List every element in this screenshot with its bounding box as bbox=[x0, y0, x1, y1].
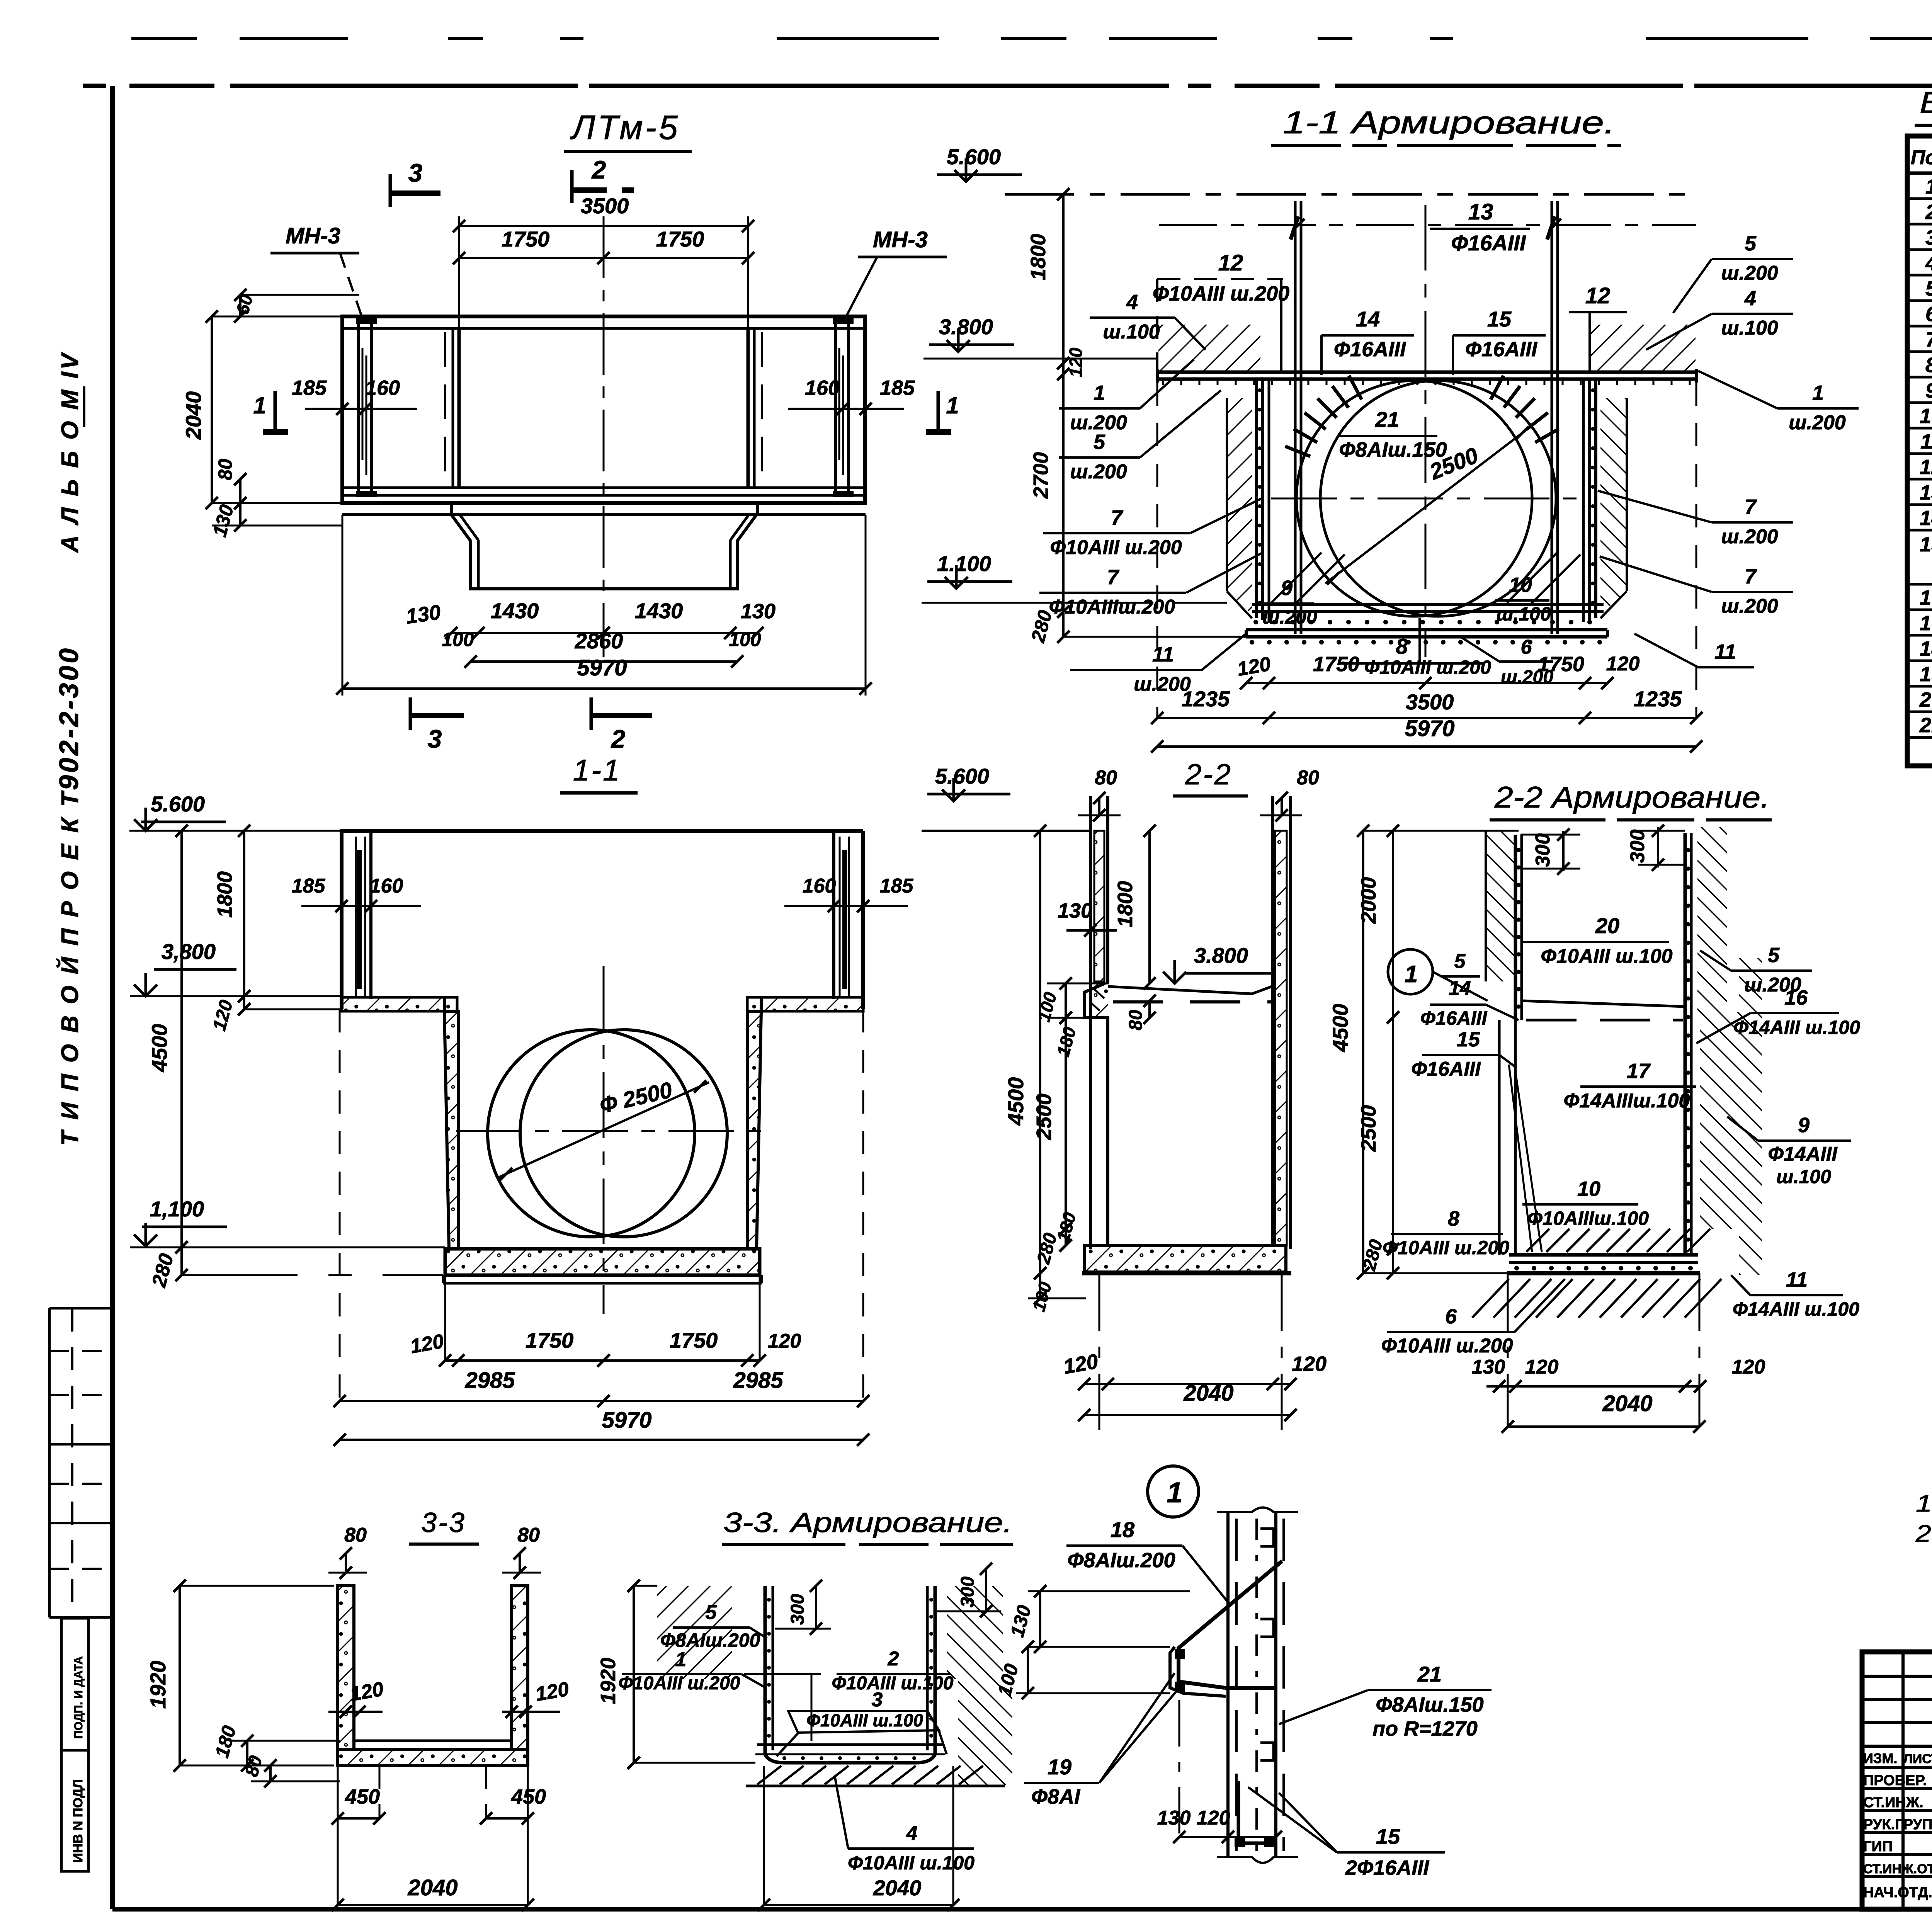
section mark 3 bottom bbox=[409, 697, 412, 730]
svg-text:12: 12 bbox=[1218, 250, 1243, 276]
svg-text:2040: 2040 bbox=[181, 391, 206, 440]
section mark 2 bottom bbox=[590, 697, 593, 730]
centerline vertical (1-1 arm) bbox=[1425, 205, 1427, 657]
svg-text:1.Защитный слой бетона - 20: 1.Защитный слой бетона - 20 мм. bbox=[1916, 1490, 1932, 1517]
svg-text:21: 21 bbox=[1919, 714, 1932, 737]
svg-text:Ф16АIII: Ф16АIII bbox=[1334, 338, 1406, 361]
slab diag hatch right bbox=[1507, 553, 1557, 603]
svg-text:160: 160 bbox=[805, 376, 840, 400]
svg-text:1.100: 1.100 bbox=[937, 551, 991, 576]
svg-text:Ф10АIII ш.100: Ф10АIII ш.100 bbox=[848, 1852, 975, 1874]
plan bottom trapezoid (base formwork) bbox=[450, 503, 453, 515]
svg-text:4500: 4500 bbox=[147, 1024, 172, 1073]
svg-text:СТ.ИНЖ.ОТД: СТ.ИНЖ.ОТД bbox=[1863, 1862, 1932, 1876]
svg-text:7: 7 bbox=[1107, 566, 1120, 589]
2-2 left wall formwork lines bbox=[1089, 796, 1092, 1249]
svg-text:3.800: 3.800 bbox=[939, 315, 993, 339]
svg-text:1: 1 bbox=[253, 393, 266, 418]
2-2 right wall hatched core bbox=[1275, 831, 1287, 1245]
svg-text:Ф10АIII ш.200: Ф10АIII ш.200 bbox=[1383, 1237, 1509, 1259]
svg-text:80: 80 bbox=[214, 459, 236, 480]
svg-text:1-1 Армирование.: 1-1 Армирование. bbox=[1283, 105, 1615, 140]
svg-text:МН-3: МН-3 bbox=[873, 227, 928, 252]
svg-text:Ф10АIII ш.200: Ф10АIII ш.200 bbox=[1153, 282, 1289, 305]
svg-text:21: 21 bbox=[1417, 1662, 1442, 1686]
soil hatch outside left wall bbox=[1227, 398, 1252, 614]
svg-text:6: 6 bbox=[1925, 303, 1932, 326]
dimension 3500 (plan top) bbox=[458, 216, 460, 328]
svg-text:3: 3 bbox=[1925, 226, 1932, 249]
svg-text:18: 18 bbox=[1920, 637, 1932, 660]
bottom slab mesh (1-1 arm) bbox=[1252, 603, 1604, 606]
svg-text:80: 80 bbox=[517, 1524, 540, 1546]
svg-text:20: 20 bbox=[1919, 688, 1932, 711]
detail 1 circle mark bbox=[1148, 1466, 1199, 1517]
3-3 arm balloon for 3 bbox=[788, 1711, 939, 1733]
svg-text:2000: 2000 bbox=[1357, 877, 1380, 924]
svg-text:5: 5 bbox=[1745, 232, 1757, 255]
svg-text:300: 300 bbox=[1532, 833, 1554, 867]
svg-text:ш.200: ш.200 bbox=[1721, 262, 1778, 284]
svg-text:2Ф16АIII: 2Ф16АIII bbox=[1345, 1856, 1429, 1879]
embedded plate MH-3 right bbox=[835, 321, 849, 496]
svg-text:5: 5 bbox=[1925, 277, 1932, 300]
circle centerline horizontal bbox=[1271, 498, 1580, 500]
svg-text:11: 11 bbox=[1786, 1268, 1808, 1291]
svg-text:5.600: 5.600 bbox=[151, 792, 205, 816]
frame bottom line bbox=[112, 1907, 1932, 1912]
1-1 right channel wall (hatched) bbox=[747, 1011, 761, 1249]
svg-text:10: 10 bbox=[1920, 405, 1932, 428]
svg-text:15: 15 bbox=[1920, 533, 1932, 556]
svg-text:1430: 1430 bbox=[491, 599, 539, 623]
svg-text:Ф8АIш.200: Ф8АIш.200 bbox=[1067, 1549, 1175, 1572]
3-3 left wall bbox=[338, 1586, 354, 1749]
svg-text:17: 17 bbox=[1920, 612, 1932, 635]
plan left dim chain 2040/60/80/130 bbox=[212, 316, 342, 318]
top mesh line (ledge + slab top bars) bbox=[1157, 371, 1696, 374]
plan right hidden line dashed bbox=[761, 332, 763, 485]
3-3 arm callout 1-2 connecting line bbox=[744, 1673, 925, 1675]
svg-text:9: 9 bbox=[1798, 1114, 1810, 1137]
svg-text:1800: 1800 bbox=[213, 871, 236, 918]
svg-text:3500: 3500 bbox=[581, 194, 629, 218]
frame top line bbox=[83, 84, 1932, 88]
svg-text:5: 5 bbox=[1454, 950, 1466, 973]
svg-text:1920: 1920 bbox=[597, 1658, 620, 1704]
svg-text:12: 12 bbox=[1920, 456, 1932, 479]
svg-text:ш.200: ш.200 bbox=[1262, 606, 1317, 628]
1-1 diameter dimension line bbox=[498, 1082, 709, 1178]
svg-text:9: 9 bbox=[1925, 379, 1932, 402]
svg-text:160: 160 bbox=[370, 875, 403, 897]
svg-text:5: 5 bbox=[1768, 944, 1780, 967]
embedded plate MH-3 left bbox=[359, 321, 372, 496]
svg-text:2-2 Армирование.: 2-2 Армирование. bbox=[1494, 780, 1770, 814]
svg-text:2: 2 bbox=[611, 724, 626, 753]
svg-text:2040: 2040 bbox=[407, 1875, 457, 1900]
svg-text:2: 2 bbox=[591, 155, 606, 184]
detail bottom break squiggle bbox=[1217, 1857, 1298, 1863]
detail bottom rebar hooks 15 bbox=[1238, 1781, 1275, 1843]
svg-text:Ф16АIII: Ф16АIII bbox=[1420, 1007, 1488, 1029]
1-1 bottom slab (hatched) bbox=[445, 1249, 760, 1275]
svg-text:А Л Ь Б О М IV: А Л Ь Б О М IV bbox=[57, 351, 83, 553]
svg-text:902-2-300: 902-2-300 bbox=[54, 646, 84, 790]
3-3 arm U rebar bbox=[764, 1586, 767, 1754]
bottom slab mesh (2-2 arm) bbox=[1509, 1253, 1698, 1257]
svg-text:1: 1 bbox=[1167, 1476, 1182, 1509]
slab diag hatch left bbox=[1271, 553, 1321, 603]
1-1 top line bbox=[340, 829, 863, 833]
3-3 arm left hatch bbox=[657, 1586, 732, 1679]
svg-text:1920: 1920 bbox=[146, 1661, 170, 1709]
svg-text:по R=1270: по R=1270 bbox=[1372, 1717, 1478, 1740]
svg-text:1800: 1800 bbox=[1027, 234, 1050, 280]
left margin stamp table bbox=[48, 1308, 51, 1617]
detail vertical bars bbox=[1226, 1512, 1230, 1856]
2-2 left wall hatched core bbox=[1094, 831, 1104, 981]
1-1 left upper wall bbox=[340, 831, 344, 1009]
svg-text:1750: 1750 bbox=[526, 1328, 574, 1352]
pipe circles (1-1 arm) bbox=[1296, 381, 1532, 616]
left hatch band (2-2 arm) bbox=[1486, 831, 1515, 981]
svg-text:ПРОВЕР.: ПРОВЕР. bbox=[1863, 1772, 1927, 1789]
svg-text:5970: 5970 bbox=[602, 1408, 651, 1433]
svg-text:13: 13 bbox=[1920, 481, 1932, 504]
svg-text:Ф14АIII: Ф14АIII bbox=[1768, 1143, 1838, 1165]
svg-text:120: 120 bbox=[768, 1330, 801, 1352]
bar 13 dimension line (dash-dot) bbox=[1159, 224, 1696, 226]
detail circle 1 (2-2 arm) bbox=[1388, 949, 1433, 994]
svg-text:РУК.ГРУП: РУК.ГРУП bbox=[1863, 1816, 1932, 1833]
svg-text:160: 160 bbox=[803, 875, 836, 897]
svg-text:ш.200: ш.200 bbox=[1721, 526, 1778, 548]
svg-text:2860: 2860 bbox=[575, 629, 623, 653]
title block left table rows bbox=[1862, 1675, 1932, 1678]
svg-text:Ф10АIII ш.200: Ф10АIII ш.200 bbox=[619, 1673, 740, 1694]
svg-text:10: 10 bbox=[1509, 573, 1532, 597]
2-2 bottom slab bbox=[1084, 1245, 1286, 1272]
svg-text:Т И П О В О Й П Р О Е К Т: Т И П О В О Й П Р О Е К Т bbox=[56, 790, 83, 1146]
svg-text:9: 9 bbox=[1281, 577, 1293, 600]
svg-text:Ф10АIIIш.100: Ф10АIIIш.100 bbox=[1527, 1207, 1649, 1229]
svg-text:185: 185 bbox=[880, 875, 914, 897]
svg-text:17: 17 bbox=[1627, 1060, 1651, 1083]
svg-text:14: 14 bbox=[1920, 507, 1932, 530]
svg-text:Ф10АIII ш.100: Ф10АIII ш.100 bbox=[832, 1673, 954, 1694]
svg-text:3,800: 3,800 bbox=[162, 939, 216, 964]
svg-text:2040: 2040 bbox=[1602, 1391, 1652, 1416]
2-2 right wall formwork lines bbox=[1289, 796, 1292, 1249]
2-2 floor slope lines bbox=[1108, 986, 1252, 994]
soil hatch left above ledge bbox=[1158, 325, 1260, 372]
1-1 right ledge (hatched slab) bbox=[747, 997, 863, 1011]
svg-text:1235: 1235 bbox=[1634, 687, 1682, 711]
svg-text:300: 300 bbox=[1626, 830, 1649, 863]
svg-text:120: 120 bbox=[1066, 347, 1086, 377]
plan left end wall partition bbox=[452, 328, 454, 488]
svg-text:Ф14АIIIш.100: Ф14АIIIш.100 bbox=[1564, 1090, 1690, 1112]
svg-text:2500: 2500 bbox=[1032, 1094, 1056, 1140]
svg-text:5: 5 bbox=[706, 1601, 717, 1624]
svg-text:2040: 2040 bbox=[1183, 1381, 1233, 1406]
1-1 centerlines bbox=[603, 966, 605, 1314]
svg-text:4: 4 bbox=[1744, 287, 1756, 310]
5.600 dash-dot level line bbox=[1005, 193, 1698, 196]
3-3 arm right hatch bbox=[947, 1586, 1003, 1679]
svg-text:2040: 2040 bbox=[873, 1876, 922, 1900]
vertical rebar 13 right bbox=[1551, 201, 1553, 634]
3-3 right wall bbox=[512, 1586, 528, 1749]
svg-text:Ф16АIII: Ф16АIII bbox=[1411, 1058, 1481, 1080]
detail bent bar 18 bbox=[1179, 1561, 1282, 1688]
soil hatch under slab (2-2 arm) bbox=[1472, 1279, 1509, 1318]
svg-text:185: 185 bbox=[880, 376, 915, 400]
plan top inner line bbox=[344, 327, 863, 330]
svg-text:130: 130 bbox=[741, 600, 776, 623]
svg-text:160: 160 bbox=[365, 376, 400, 400]
slab rebar dots bbox=[1253, 620, 1258, 624]
svg-text:Ф8АIш.150: Ф8АIш.150 bbox=[1376, 1693, 1483, 1716]
detail horizontal bar to wall bbox=[1225, 1686, 1275, 1690]
diameter 2500 note bbox=[1325, 427, 1530, 583]
svg-text:Ф10АIII ш.200: Ф10АIII ш.200 bbox=[1050, 536, 1182, 559]
svg-text:5.600: 5.600 bbox=[947, 145, 1001, 169]
svg-text:1: 1 bbox=[1812, 381, 1824, 405]
svg-text:1750: 1750 bbox=[1538, 653, 1584, 676]
svg-text:120: 120 bbox=[1292, 1352, 1327, 1376]
detail hooked bars 21 in wall bbox=[1260, 1529, 1274, 1546]
svg-text:ГИП: ГИП bbox=[1863, 1838, 1893, 1855]
1-1 left ledge (hatched slab) bbox=[342, 997, 457, 1011]
table row lines bbox=[1907, 197, 1932, 200]
svg-text:2700: 2700 bbox=[1029, 452, 1053, 499]
svg-text:Ф10АIII ш.100: Ф10АIII ш.100 bbox=[1541, 945, 1672, 968]
svg-text:2985: 2985 bbox=[733, 1368, 783, 1393]
section mark 1 right bbox=[937, 391, 940, 433]
svg-text:4: 4 bbox=[1925, 252, 1932, 275]
svg-text:Ф14АIII ш.100: Ф14АIII ш.100 bbox=[1733, 1298, 1859, 1320]
section mark 2 top bbox=[570, 170, 574, 203]
svg-text:1750: 1750 bbox=[1313, 653, 1359, 676]
svg-text:11: 11 bbox=[1920, 430, 1932, 453]
section mark 3 top bbox=[389, 174, 392, 207]
left wall mesh (2-2 arm) bbox=[1514, 835, 1517, 1020]
svg-text:Ф16АIII: Ф16АIII bbox=[1465, 338, 1537, 361]
svg-text:ш.200: ш.200 bbox=[1070, 461, 1127, 483]
svg-text:3-3. Армирование.: 3-3. Армирование. bbox=[723, 1507, 1012, 1538]
svg-text:4: 4 bbox=[906, 1822, 918, 1845]
svg-text:4500: 4500 bbox=[1328, 1004, 1352, 1053]
svg-text:3-3: 3-3 bbox=[421, 1507, 466, 1538]
svg-text:Ф14АIII ш.100: Ф14АIII ш.100 bbox=[1733, 1017, 1860, 1038]
svg-text:Ф10АIII ш.200: Ф10АIII ш.200 bbox=[1381, 1335, 1513, 1357]
svg-text:7: 7 bbox=[1925, 328, 1932, 351]
svg-text:130: 130 bbox=[405, 600, 442, 628]
svg-text:ПОДП. И ДАТА: ПОДП. И ДАТА bbox=[72, 1656, 85, 1739]
svg-text:ш.200: ш.200 bbox=[1721, 595, 1778, 617]
svg-text:Ф16АIII: Ф16АIII bbox=[1451, 231, 1526, 255]
svg-text:7: 7 bbox=[1745, 565, 1757, 588]
bar 21 tick marks along circle top-left bbox=[1349, 376, 1362, 400]
section mark 1 left bbox=[274, 391, 277, 433]
plan left hidden line dashed bbox=[444, 332, 446, 485]
plan centerline vertical bbox=[603, 216, 605, 657]
1-1 pipe circles Ф2500 bbox=[488, 1030, 695, 1237]
svg-text:Ф8АI: Ф8АI bbox=[1031, 1785, 1080, 1808]
frame left line bbox=[110, 86, 115, 1909]
svg-text:ЛТм-5: ЛТм-5 bbox=[570, 108, 680, 146]
svg-text:МН-3: МН-3 bbox=[286, 223, 340, 248]
plan bottom inner lines bbox=[344, 486, 863, 489]
svg-text:1: 1 bbox=[1925, 175, 1932, 198]
svg-text:СТ.ИНЖ.: СТ.ИНЖ. bbox=[1863, 1794, 1923, 1811]
svg-text:Ведомость отдельных стержне: Ведомость отдельных стержней bbox=[1920, 85, 1932, 119]
svg-text:8: 8 bbox=[1925, 354, 1932, 377]
left margin inventory box with vertical labels bbox=[61, 1618, 88, 1871]
table outer box bbox=[1907, 136, 1932, 766]
svg-text:8: 8 bbox=[1448, 1207, 1459, 1230]
svg-text:11: 11 bbox=[1714, 640, 1736, 663]
svg-text:Ф10АIII ш.200: Ф10АIII ш.200 bbox=[1364, 656, 1491, 678]
svg-text:3: 3 bbox=[408, 158, 423, 187]
svg-text:1: 1 bbox=[675, 1648, 687, 1671]
svg-text:2. Поз. 11;16 ; 20 в месте: 2. Поз. 11;16 ; 20 в месте прохождения о… bbox=[1915, 1520, 1932, 1547]
svg-text:80: 80 bbox=[1297, 767, 1319, 789]
svg-text:130: 130 bbox=[1058, 899, 1092, 922]
svg-text:ш.100: ш.100 bbox=[1103, 321, 1160, 343]
svg-text:1: 1 bbox=[946, 393, 959, 418]
right wall mesh (2-2 arm) bbox=[1684, 833, 1687, 1255]
svg-text:450: 450 bbox=[345, 1785, 380, 1808]
svg-text:19: 19 bbox=[1920, 663, 1932, 686]
svg-text:ЛИСТ: ЛИСТ bbox=[1903, 1752, 1932, 1766]
svg-text:5.600: 5.600 bbox=[935, 764, 989, 788]
page top broken line bbox=[131, 37, 1932, 40]
svg-text:1430: 1430 bbox=[635, 599, 683, 623]
svg-text:11: 11 bbox=[1152, 643, 1174, 666]
svg-text:1: 1 bbox=[1094, 381, 1105, 405]
svg-text:1,100: 1,100 bbox=[150, 1197, 204, 1221]
slab top hatch (2-2 arm) bbox=[1526, 1229, 1549, 1252]
svg-text:3.800: 3.800 bbox=[1194, 943, 1248, 968]
svg-text:100: 100 bbox=[442, 629, 474, 650]
svg-text:Ф10АIII ш.100: Ф10АIII ш.100 bbox=[806, 1710, 923, 1730]
svg-text:2-2: 2-2 bbox=[1185, 758, 1232, 791]
svg-text:4500: 4500 bbox=[1003, 1077, 1028, 1126]
svg-text:80: 80 bbox=[1126, 1010, 1146, 1031]
svg-text:19: 19 bbox=[1048, 1755, 1071, 1779]
svg-text:1235: 1235 bbox=[1182, 687, 1230, 711]
vertical rebar 13 left bbox=[1294, 201, 1297, 634]
title block left table columns bbox=[1901, 1652, 1905, 1909]
svg-text:1-1: 1-1 bbox=[573, 753, 621, 787]
svg-text:14: 14 bbox=[1449, 977, 1471, 1000]
svg-text:130: 130 bbox=[1157, 1807, 1191, 1829]
svg-text:12: 12 bbox=[1585, 283, 1611, 308]
mesh tick marks bbox=[1162, 379, 1164, 385]
svg-text:4: 4 bbox=[1126, 291, 1138, 314]
svg-text:НАЧ.ОТД.: НАЧ.ОТД. bbox=[1863, 1884, 1932, 1901]
svg-text:15: 15 bbox=[1376, 1824, 1400, 1849]
svg-text:2: 2 bbox=[888, 1648, 899, 1670]
plan right end wall partition bbox=[747, 328, 750, 488]
svg-text:20: 20 bbox=[1595, 913, 1619, 938]
svg-text:100: 100 bbox=[729, 629, 761, 650]
svg-text:13: 13 bbox=[1468, 199, 1493, 224]
svg-text:14: 14 bbox=[1356, 307, 1380, 331]
svg-text:185: 185 bbox=[292, 376, 327, 400]
svg-text:7: 7 bbox=[1111, 506, 1124, 529]
svg-text:3: 3 bbox=[872, 1689, 883, 1711]
svg-text:ш.200: ш.200 bbox=[1789, 412, 1846, 434]
svg-text:5970: 5970 bbox=[577, 655, 627, 680]
left wall lower edge lines (2-2 arm) bbox=[1498, 1020, 1501, 1255]
svg-text:15: 15 bbox=[1487, 307, 1512, 331]
svg-text:120: 120 bbox=[1732, 1356, 1765, 1378]
svg-text:21: 21 bbox=[1375, 407, 1399, 432]
svg-text:120: 120 bbox=[1525, 1356, 1559, 1378]
svg-text:120: 120 bbox=[1197, 1807, 1230, 1829]
2-2 left console step at 3.800 bbox=[1084, 983, 1108, 1024]
svg-text:1: 1 bbox=[1405, 961, 1418, 988]
svg-text:10: 10 bbox=[1577, 1177, 1600, 1201]
svg-text:15: 15 bbox=[1457, 1028, 1480, 1051]
svg-text:16: 16 bbox=[1784, 986, 1808, 1009]
title block outer bbox=[1862, 1652, 1932, 1909]
svg-text:185: 185 bbox=[292, 875, 326, 897]
svg-text:1800: 1800 bbox=[1114, 881, 1137, 927]
svg-text:ИЗМ.: ИЗМ. bbox=[1863, 1750, 1897, 1766]
1-1 bottom formwork line bbox=[443, 1282, 762, 1285]
3-3 bottom slab bbox=[338, 1749, 528, 1765]
svg-text:2985: 2985 bbox=[464, 1368, 515, 1393]
svg-text:ш.100: ш.100 bbox=[1721, 317, 1778, 339]
svg-text:16: 16 bbox=[1920, 586, 1932, 609]
right wall rebar cage bbox=[1582, 379, 1585, 622]
svg-text:18: 18 bbox=[1111, 1517, 1135, 1542]
svg-text:120: 120 bbox=[1606, 653, 1640, 675]
svg-text:3: 3 bbox=[428, 724, 442, 753]
plan outer rectangle bbox=[342, 316, 865, 503]
plan bottom formwork line bbox=[342, 513, 866, 516]
3-3 arm soil hatch under U bbox=[757, 1766, 781, 1784]
1-1 left channel wall (hatched) bbox=[444, 1011, 458, 1249]
svg-text:300: 300 bbox=[957, 1577, 978, 1607]
svg-text:Поз.: Поз. bbox=[1911, 146, 1932, 169]
svg-text:ш.100: ш.100 bbox=[1776, 1166, 1831, 1187]
soil hatch outside right wall bbox=[1600, 398, 1627, 614]
svg-text:8: 8 bbox=[1396, 634, 1408, 658]
svg-text:6: 6 bbox=[1521, 636, 1532, 658]
svg-text:Ф8АIш.200: Ф8АIш.200 bbox=[660, 1629, 760, 1651]
soil hatch right above ledge bbox=[1591, 325, 1696, 372]
svg-text:ИНВ N ПОДЛ: ИНВ N ПОДЛ bbox=[71, 1779, 85, 1862]
svg-text:80: 80 bbox=[344, 1524, 367, 1546]
svg-text:ш.100: ш.100 bbox=[1496, 603, 1551, 625]
svg-text:Ф8АIш.150: Ф8АIш.150 bbox=[1339, 438, 1447, 461]
svg-text:3500: 3500 bbox=[1406, 690, 1454, 714]
detail top break squiggle bbox=[1217, 1508, 1298, 1512]
svg-text:6: 6 bbox=[1445, 1305, 1457, 1328]
svg-text:1750: 1750 bbox=[656, 227, 704, 251]
svg-text:5970: 5970 bbox=[1405, 716, 1454, 741]
svg-text:1750: 1750 bbox=[502, 227, 550, 251]
svg-text:2500: 2500 bbox=[1357, 1105, 1380, 1152]
svg-text:130: 130 bbox=[1472, 1356, 1505, 1378]
svg-text:2: 2 bbox=[1925, 201, 1932, 224]
